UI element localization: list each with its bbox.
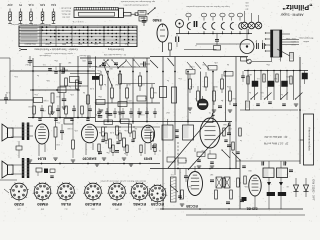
svg-text:MW: MW [62, 43, 66, 45]
svg-text:220V~ 50Hz: 220V~ 50Hz [286, 37, 297, 39]
svg-text:EM80: EM80 [152, 18, 161, 22]
svg-text:(M): (M) [41, 208, 45, 210]
svg-text:0,1A: 0,1A [28, 3, 33, 6]
svg-text:1n: 1n [240, 139, 242, 141]
svg-text:EM80: EM80 [37, 202, 48, 207]
svg-text:6,3V: 6,3V [40, 3, 45, 6]
svg-text:(F): (F) [115, 208, 118, 210]
svg-text:110V~: 110V~ [289, 43, 295, 45]
svg-text:zum Netzteil: zum Netzteil [79, 54, 91, 57]
svg-text:(C): (C) [138, 208, 141, 210]
svg-text:10n: 10n [117, 129, 120, 131]
svg-text:Schalterstellung: Schalterstellung [107, 48, 124, 51]
svg-text:EL84: EL84 [38, 157, 47, 161]
svg-text:„Pillnitz“: „Pillnitz“ [282, 3, 313, 12]
svg-text:EL84: EL84 [60, 202, 70, 207]
svg-text:ZF : 10,7 MHz im FM: ZF : 10,7 MHz im FM [264, 142, 288, 146]
svg-text:Lage der Spulen von der Innens: Lage der Spulen von der Innenseite geseh… [185, 5, 229, 8]
svg-text:Kontakte : Taste gedrückt =: Kontakte : Taste gedrückt = Punkt schwar… [33, 48, 77, 51]
svg-text:125: 125 [245, 4, 248, 6]
svg-text:(Z): (Z) [17, 208, 20, 210]
svg-text:2,5V: 2,5V [7, 3, 12, 6]
svg-text:ECH81: ECH81 [246, 207, 257, 211]
svg-text:7V: 7V [19, 3, 22, 6]
svg-text:U M K L T A: U M K L T A [72, 20, 83, 23]
svg-text:EABC80: EABC80 [83, 157, 97, 161]
svg-text:ECC85: ECC85 [186, 204, 198, 208]
svg-text:Aus: Aus [125, 43, 129, 46]
svg-text:127V~: 127V~ [289, 40, 295, 42]
svg-text:(L): (L) [64, 208, 67, 210]
svg-text:UKW: UKW [46, 43, 51, 45]
svg-text:220: 220 [245, 1, 248, 3]
svg-text:Ansicht der: Ansicht der [60, 7, 71, 10]
svg-text:wähler: wähler [303, 40, 309, 42]
svg-text:rige Skalenzeiger von hinten: rige Skalenzeiger von hinten betracht [120, 0, 155, 3]
svg-text:(A): (A) [91, 208, 94, 211]
svg-text:Drucktasten: Drucktasten [24, 43, 36, 46]
svg-text:GW 21182 - 3 FT: GW 21182 - 3 FT [312, 179, 316, 201]
svg-text:AM/FM - Super: AM/FM - Super [280, 13, 304, 17]
svg-text:Antennenanschluss: Antennenanschluss [308, 127, 312, 151]
svg-text:EABC80: EABC80 [84, 202, 101, 207]
svg-text:EF89: EF89 [111, 202, 121, 207]
svg-text:Ansicht der Röhren auf die Unt: Ansicht der Röhren auf die Unterseite ge… [99, 180, 145, 183]
svg-text:Netzspannungs-: Netzspannungs- [298, 37, 313, 40]
svg-text:ZF : 468 kHz im AM: ZF : 468 kHz im AM [265, 135, 288, 139]
svg-text:LW: LW [94, 43, 97, 45]
svg-text:seite her: seite her [62, 16, 70, 19]
svg-text:ZF - Verstärker AM / FM: ZF - Verstärker AM / FM [104, 53, 126, 56]
svg-text:1M: 1M [274, 77, 277, 79]
svg-text:der Rück-: der Rück- [61, 13, 70, 16]
svg-text:0,5M: 0,5M [139, 113, 144, 115]
svg-text:0,5M: 0,5M [189, 65, 194, 67]
svg-text:auf der Rückseite gesehen: auf der Rückseite gesehen [123, 4, 149, 7]
svg-text:0,5M: 0,5M [67, 127, 72, 129]
svg-text:1M: 1M [110, 97, 113, 99]
svg-text:EF89: EF89 [144, 157, 152, 161]
svg-text:(cc): (cc) [155, 208, 159, 210]
svg-text:1M: 1M [134, 127, 137, 129]
svg-text:KW: KW [78, 43, 81, 45]
svg-text:1M: 1M [68, 61, 71, 63]
svg-text:0,1A: 0,1A [51, 3, 56, 6]
svg-text:1M: 1M [210, 173, 213, 175]
svg-text:ECH81: ECH81 [132, 202, 146, 207]
svg-text:EZ80: EZ80 [13, 202, 23, 207]
svg-text:110: 110 [245, 7, 248, 9]
svg-text:ECC85: ECC85 [150, 202, 164, 207]
svg-text:Klangblende: Klangblende [39, 54, 51, 56]
svg-text:Skala von: Skala von [61, 10, 71, 12]
svg-text:8n: 8n [124, 152, 126, 154]
svg-text:0,5M: 0,5M [43, 99, 48, 101]
svg-text:25n: 25n [106, 151, 109, 153]
